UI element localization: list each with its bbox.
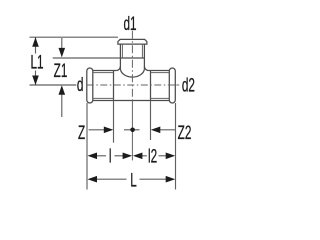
right flare bead xyxy=(169,68,175,103)
branch centerline xyxy=(131,31,133,101)
right insertion stop xyxy=(150,71,152,101)
Z row shafts xyxy=(89,129,106,131)
svg-text:L: L xyxy=(130,171,137,191)
L row shafts xyxy=(95,178,127,180)
branch left wall xyxy=(119,44,121,69)
crotch dome xyxy=(120,69,144,77)
left flare bead xyxy=(87,68,93,103)
Z right arrow xyxy=(104,127,114,134)
l2 right arrow xyxy=(166,153,176,160)
top reference line xyxy=(30,36,119,38)
svg-text:d1: d1 xyxy=(123,14,136,34)
left insertion stop xyxy=(113,71,115,101)
ext line left stop xyxy=(113,101,115,143)
run top edge left of branch xyxy=(93,70,116,72)
arrowheads black xyxy=(32,37,175,182)
run top edge right of branch xyxy=(149,70,170,72)
svg-text:Z2: Z2 xyxy=(178,124,192,144)
ext line left end xyxy=(86,103,88,190)
branch insertion line xyxy=(120,57,144,59)
l row shafts xyxy=(96,155,107,157)
svg-text:L1: L1 xyxy=(30,53,43,73)
ext line right end xyxy=(175,103,177,190)
L left arrow xyxy=(88,176,98,183)
run centerline extension left xyxy=(30,84,77,86)
fitting: tee body xyxy=(87,39,176,103)
ext line right stop xyxy=(150,101,152,141)
d2 leader dash xyxy=(176,84,179,86)
l2 left arrow xyxy=(133,153,143,160)
run bottom edge xyxy=(93,100,170,102)
center dot xyxy=(130,128,135,133)
Z2 left arrow xyxy=(151,127,161,134)
socket inner lines xyxy=(93,44,170,98)
Z1 lower stem xyxy=(61,93,63,117)
l right arrow xyxy=(123,153,133,160)
right fillet xyxy=(144,66,148,70)
l left arrow xyxy=(88,153,98,160)
L1 dimension line xyxy=(35,37,37,53)
Z1 up arrow xyxy=(59,85,66,95)
insertion depth ref line y58 xyxy=(53,57,121,59)
branch right wall xyxy=(143,44,145,69)
L1 up arrow xyxy=(32,37,39,47)
L right arrow xyxy=(166,176,176,183)
Z1 down arrow xyxy=(59,48,66,58)
svg-text:l2: l2 xyxy=(148,147,157,167)
branch flare bead xyxy=(118,39,147,44)
run centerline dash-dot in fitting xyxy=(87,84,177,86)
svg-text:Z: Z xyxy=(78,124,85,144)
centerlines xyxy=(87,31,179,161)
svg-text:Z1: Z1 xyxy=(54,61,68,81)
svg-text:l: l xyxy=(109,147,112,167)
left fillet xyxy=(116,66,120,70)
Z1 upper stem xyxy=(61,38,63,49)
svg-text:d2: d2 xyxy=(182,76,195,96)
dimension lines gray xyxy=(30,37,176,189)
svg-text:d: d xyxy=(77,76,84,96)
L1 down arrow xyxy=(32,76,39,86)
